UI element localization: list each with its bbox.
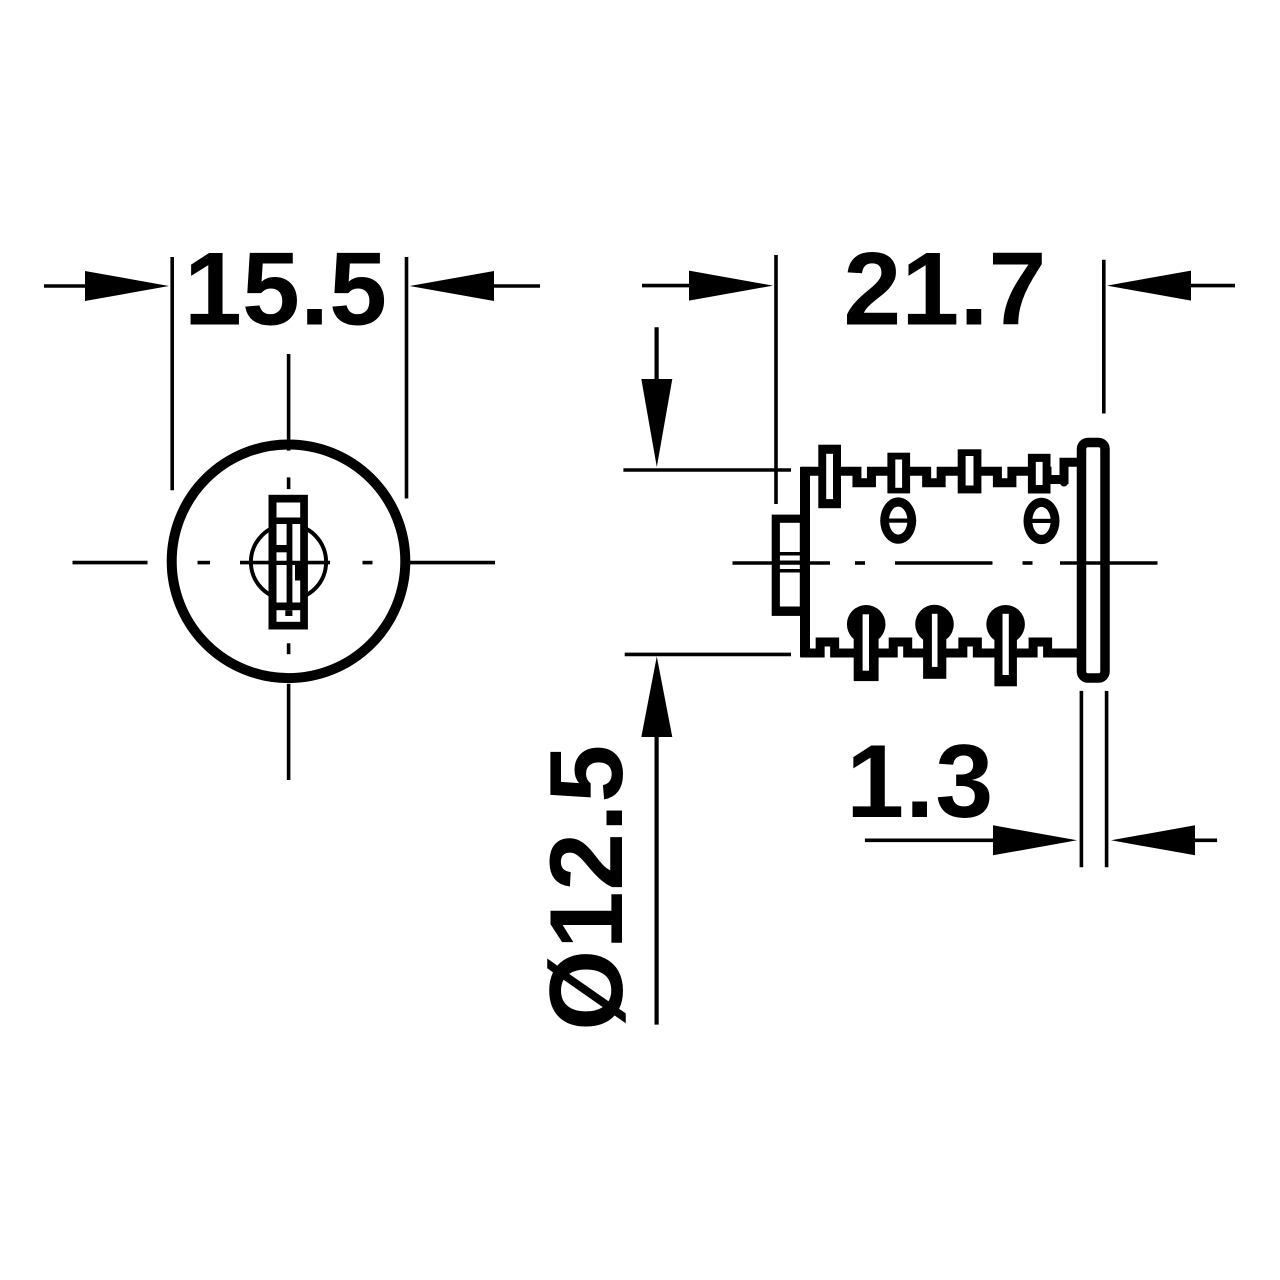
pin 3 xyxy=(986,605,1025,644)
lower extension line xyxy=(625,653,791,657)
wafer tooth 1 xyxy=(818,445,841,509)
body left wall xyxy=(800,467,810,657)
front vertical centerline xyxy=(287,354,291,780)
extension line right xyxy=(405,257,409,499)
pin 1 xyxy=(847,605,886,644)
pin 2 xyxy=(915,605,954,644)
extension line right xyxy=(1105,691,1109,867)
key slot lower-right white xyxy=(292,581,300,603)
key slot upper-left lower white xyxy=(277,552,287,561)
right arrow xyxy=(1188,284,1235,288)
key slot outer body xyxy=(269,495,308,630)
key profile left step xyxy=(276,545,288,552)
down arrow xyxy=(654,327,658,385)
svg-text:1.3: 1.3 xyxy=(846,724,993,840)
top edge stub near flange xyxy=(1060,465,1068,483)
screw head 1 xyxy=(880,497,916,543)
screw head 2 xyxy=(1024,498,1060,544)
wafer tooth 2 xyxy=(887,453,910,494)
key slot bottom stub xyxy=(285,610,292,616)
left arrow xyxy=(865,838,995,842)
left arrow xyxy=(642,284,692,288)
left arrow xyxy=(44,284,90,288)
body bottom edge castellated xyxy=(801,642,1082,653)
extension line left xyxy=(170,257,174,490)
right arrow xyxy=(1190,838,1217,842)
upper extension line xyxy=(623,468,791,472)
extension line left xyxy=(774,255,778,504)
cylinder outer circle xyxy=(172,445,406,679)
side view centerline xyxy=(733,561,1158,565)
rear cam tab xyxy=(772,515,804,616)
key slot lower-left white xyxy=(277,565,287,603)
svg-text:15.5: 15.5 xyxy=(184,232,387,348)
right arrow xyxy=(494,284,540,288)
key slot upper-right white xyxy=(292,524,300,561)
wafer tooth 4 xyxy=(1028,454,1051,494)
plug circle xyxy=(251,524,326,599)
front flange plate xyxy=(1082,443,1106,679)
extension line right xyxy=(1102,260,1106,414)
front horizontal centerline xyxy=(73,561,496,565)
body top edge castellated xyxy=(801,462,1082,482)
extension line left xyxy=(1080,691,1084,867)
svg-text:Ø12.5: Ø12.5 xyxy=(529,745,645,1031)
wafer tooth 3 xyxy=(958,449,982,493)
key slot upper-left white xyxy=(277,524,287,545)
key slot top window xyxy=(277,503,301,518)
key slot lower mid white sliver xyxy=(292,565,295,581)
up arrow xyxy=(654,735,658,1025)
key slot bottom window xyxy=(277,610,301,622)
svg-text:21.7: 21.7 xyxy=(843,232,1046,348)
